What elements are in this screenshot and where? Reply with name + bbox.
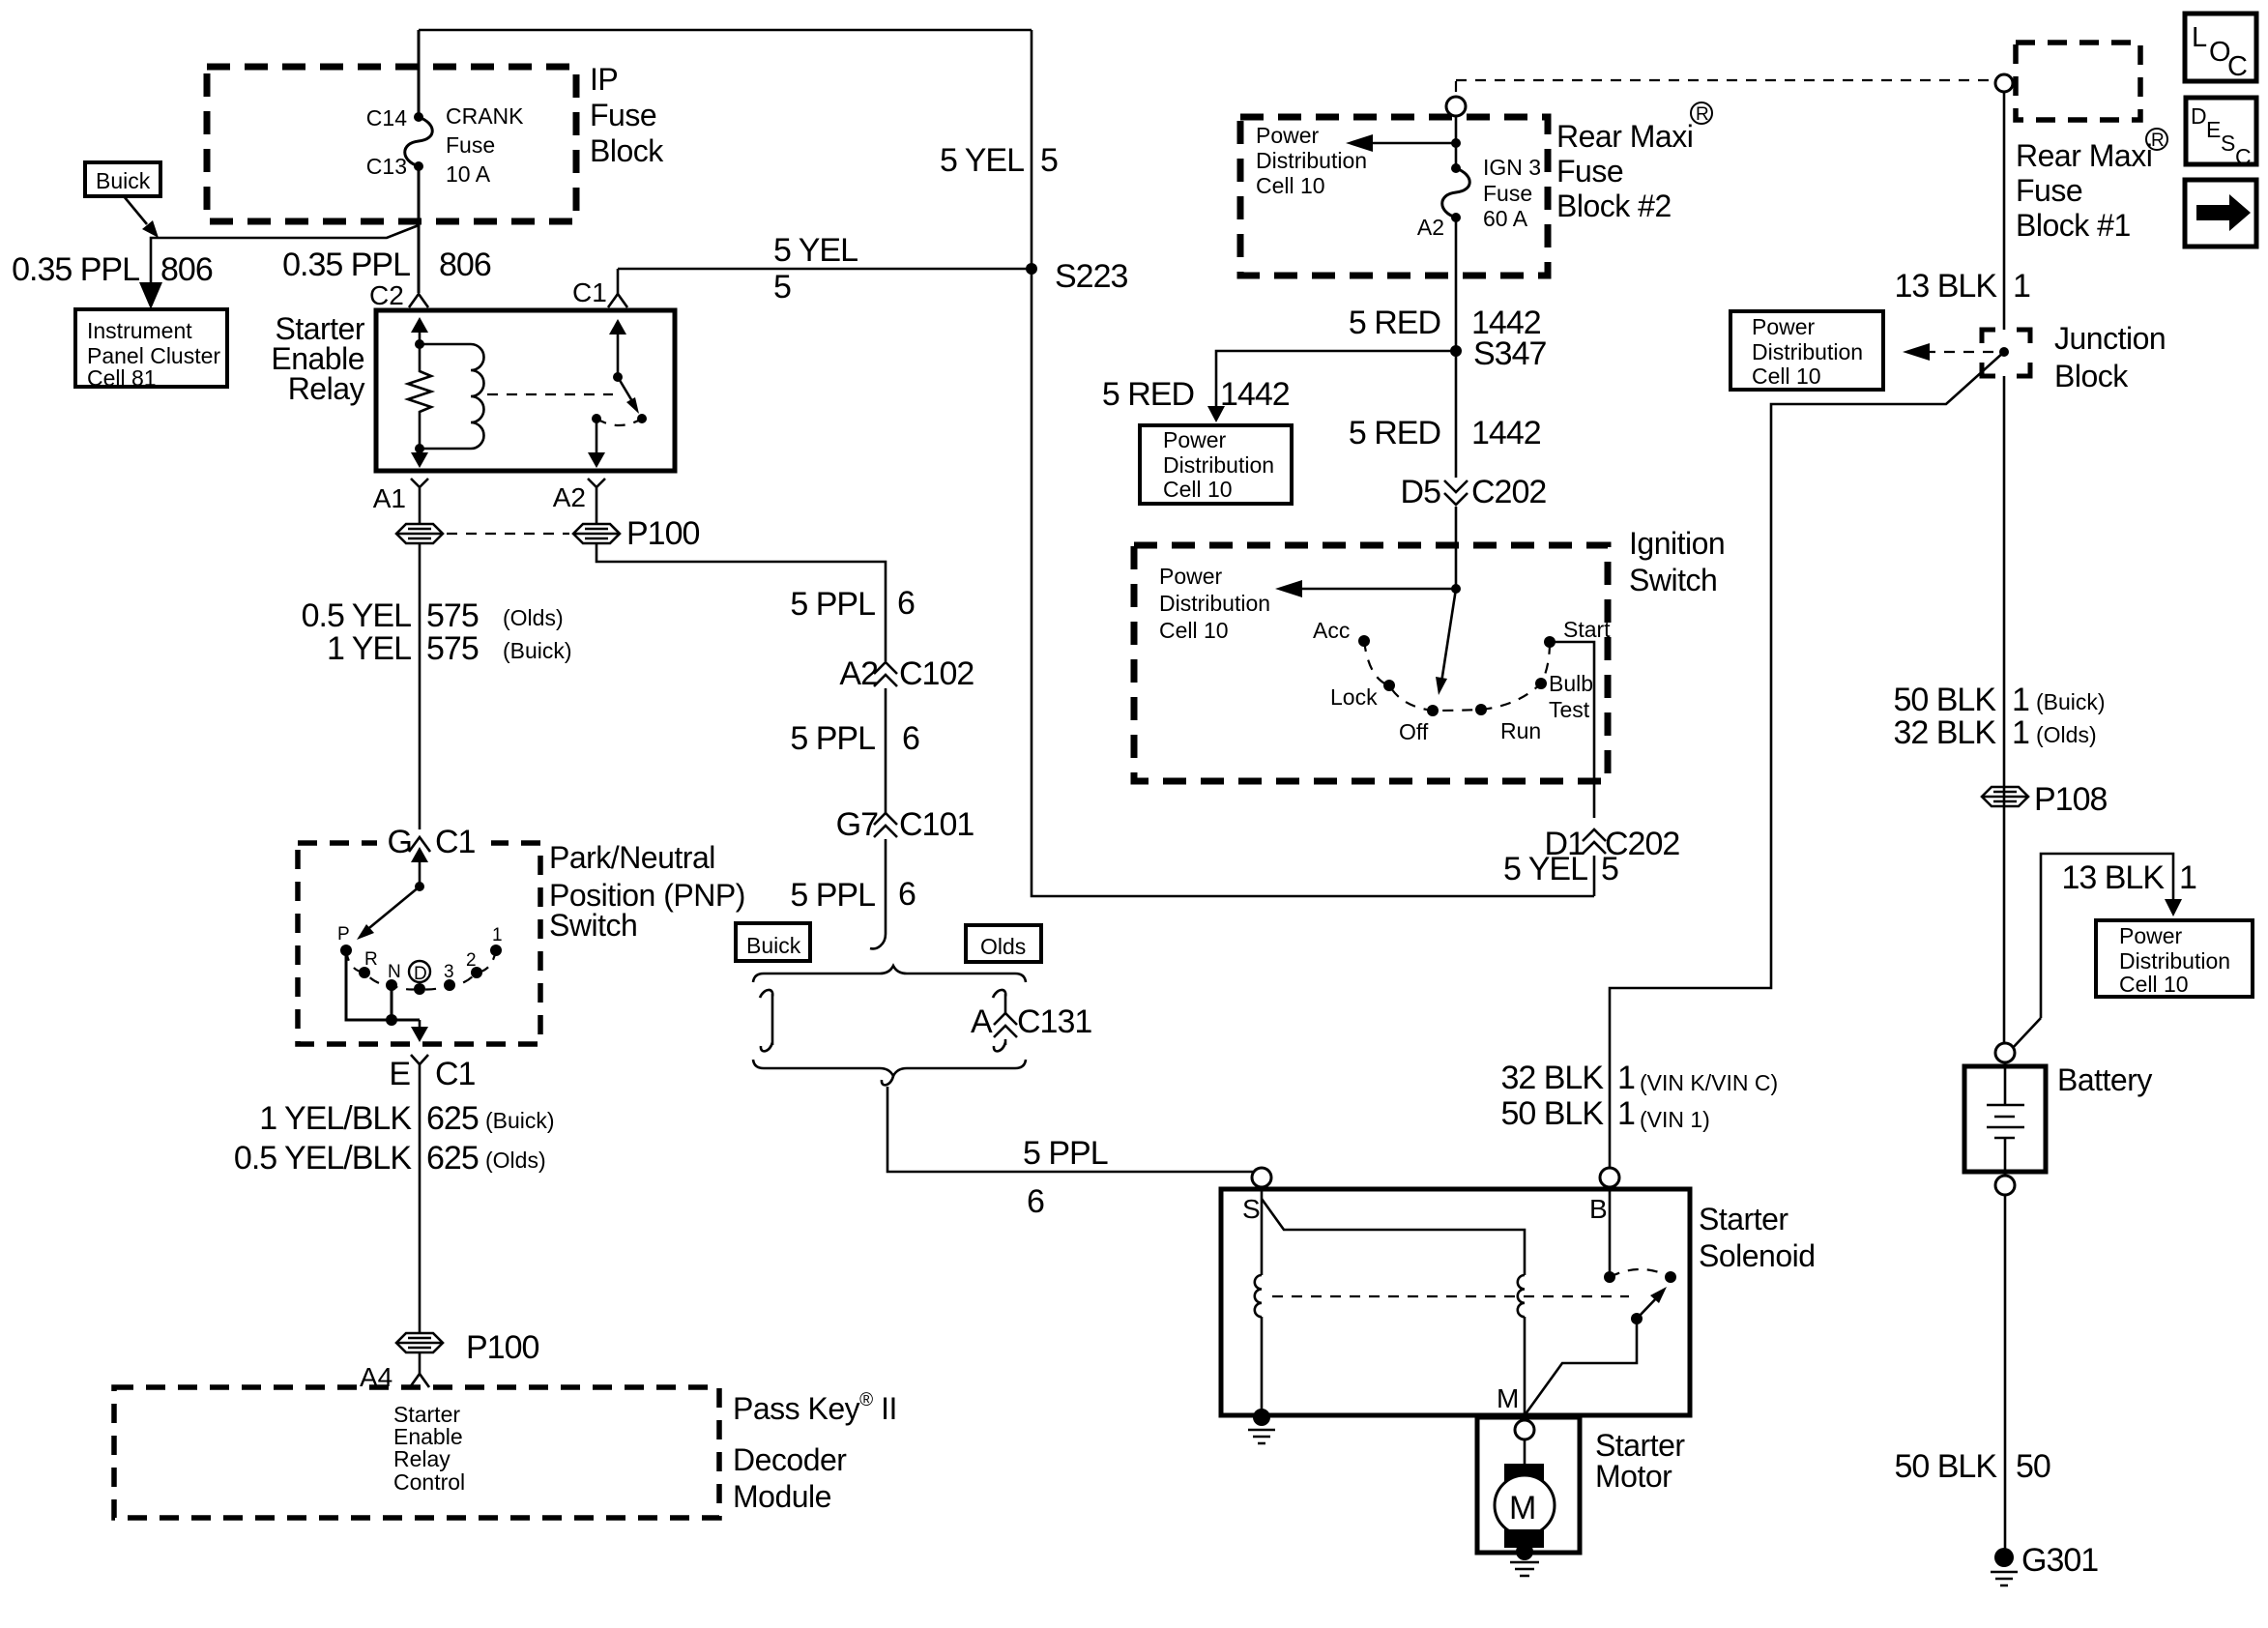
svg-text:C: C xyxy=(2227,51,2248,82)
svg-text:Distribution: Distribution xyxy=(1256,148,1367,173)
svg-text:5: 5 xyxy=(1040,142,1058,179)
svg-text:32 BLK: 32 BLK xyxy=(1893,714,1996,751)
svg-text:13 BLK: 13 BLK xyxy=(1894,268,1997,305)
svg-text:Pass Key® II: Pass Key® II xyxy=(733,1390,897,1426)
svg-text:R: R xyxy=(364,949,378,970)
ignition contact Lock xyxy=(1383,680,1395,691)
svg-text:Block #1: Block #1 xyxy=(2016,208,2131,243)
wire: circle down to IGN3 fuse xyxy=(1455,116,1458,168)
bulkhead connector P100 (A2) xyxy=(573,524,620,543)
battery top terminal xyxy=(1995,1043,2015,1062)
ignition rotor arm xyxy=(1441,589,1456,683)
svg-text:M: M xyxy=(1497,1383,1519,1413)
svg-text:A1: A1 xyxy=(373,483,406,513)
LOC box xyxy=(2185,14,2256,81)
svg-text:5: 5 xyxy=(1601,851,1618,887)
svg-text:Olds: Olds xyxy=(980,934,1026,959)
svg-text:Switch: Switch xyxy=(549,908,637,943)
solenoid hold-in winding xyxy=(1261,1187,1264,1275)
svg-text:Off: Off xyxy=(1399,719,1429,744)
Junction Block (dashed bracket) xyxy=(1982,330,2030,376)
svg-text:625: 625 xyxy=(426,1140,479,1177)
arrow to Power Distribution (ignition) xyxy=(1287,588,1456,591)
wire: E down to P100 xyxy=(419,1064,422,1332)
Ignition Switch box (dashed) xyxy=(1134,545,1608,781)
svg-text:5 RED: 5 RED xyxy=(1349,415,1440,451)
svg-text:Bulb: Bulb xyxy=(1549,671,1593,696)
wire: S347 down to D5 xyxy=(1455,351,1458,478)
svg-text:Ignition: Ignition xyxy=(1629,526,1725,561)
svg-text:Relay: Relay xyxy=(393,1446,451,1471)
svg-text:1: 1 xyxy=(1617,1060,1635,1096)
svg-text:R: R xyxy=(1696,104,1709,125)
svg-text:1: 1 xyxy=(492,925,503,945)
upper options brace xyxy=(753,966,1026,982)
ground G301 xyxy=(1994,1548,2014,1567)
svg-text:6: 6 xyxy=(902,720,919,757)
solenoid contact B xyxy=(1609,1187,1612,1277)
svg-text:P100: P100 xyxy=(626,515,699,552)
svg-text:IP: IP xyxy=(590,62,618,97)
wire: branch to Power Distribution (13 BLK) xyxy=(2041,854,2173,1018)
PNP contact N xyxy=(386,979,397,991)
junction node xyxy=(1999,347,2009,357)
ignition contact Off xyxy=(1427,705,1439,716)
Power Distribution Cell 10 box (middle) xyxy=(1140,425,1292,504)
svg-text:Relay: Relay xyxy=(288,371,365,406)
svg-text:6: 6 xyxy=(897,585,915,622)
svg-text:Solenoid: Solenoid xyxy=(1699,1238,1816,1273)
resistor (relay) xyxy=(408,344,431,449)
svg-text:Distribution: Distribution xyxy=(1752,339,1863,364)
svg-text:Cell 10: Cell 10 xyxy=(1159,618,1229,643)
svg-text:A2: A2 xyxy=(839,655,878,692)
next-page arrow box xyxy=(2185,180,2256,247)
svg-text:CRANK: CRANK xyxy=(446,103,524,129)
svg-text:D5: D5 xyxy=(1401,474,1441,510)
svg-text:E: E xyxy=(2206,117,2221,142)
ignition contact Start xyxy=(1544,636,1556,648)
svg-text:(Olds): (Olds) xyxy=(503,605,564,630)
svg-text:Power: Power xyxy=(1256,123,1320,148)
svg-text:D: D xyxy=(2191,103,2207,129)
wire: A1 down to PNP switch xyxy=(419,542,422,829)
Olds option stub lower xyxy=(994,1039,1005,1051)
wire: junction diagonal feed to solenoid B xyxy=(1610,352,2004,1168)
wire: fuse output down to relay pin C2 xyxy=(418,166,421,293)
Buick tag box (options) xyxy=(736,923,810,961)
PNP contact 2 xyxy=(471,967,482,978)
bulkhead connector P108 xyxy=(1982,787,2028,806)
motor ground xyxy=(1516,1543,1533,1560)
svg-text:2: 2 xyxy=(466,950,477,971)
Buick tag box xyxy=(85,162,160,196)
svg-text:Starter: Starter xyxy=(1595,1428,1685,1463)
svg-text:Control: Control xyxy=(393,1469,465,1495)
svg-text:C13: C13 xyxy=(366,154,407,179)
Buick option stub xyxy=(760,990,772,1051)
node S223 xyxy=(1026,263,1037,275)
svg-text:5 RED: 5 RED xyxy=(1349,305,1440,341)
svg-text:S223: S223 xyxy=(1055,258,1127,295)
Rear Maxi Fuse Block 2 (dashed) xyxy=(1240,117,1548,276)
svg-text:50 BLK: 50 BLK xyxy=(1893,682,1996,718)
Park/Neutral Position (PNP) Switch box (dashed) xyxy=(298,843,540,1044)
svg-text:(Buick): (Buick) xyxy=(2036,689,2106,714)
svg-text:Starter: Starter xyxy=(1699,1202,1788,1236)
svg-text:0.5 YEL: 0.5 YEL xyxy=(302,597,411,634)
svg-text:Module: Module xyxy=(733,1479,831,1514)
svg-text:50 BLK: 50 BLK xyxy=(1500,1095,1604,1132)
svg-text:1: 1 xyxy=(2012,682,2029,718)
svg-text:(Buick): (Buick) xyxy=(503,638,572,663)
svg-text:0.35 PPL: 0.35 PPL xyxy=(12,251,139,288)
node S347 xyxy=(1450,345,1462,357)
svg-text:6: 6 xyxy=(1027,1183,1044,1220)
svg-text:5 PPL: 5 PPL xyxy=(790,720,875,757)
svg-text:C102: C102 xyxy=(899,655,974,692)
ignition contact Run xyxy=(1475,704,1487,715)
svg-text:Power: Power xyxy=(2119,923,2183,948)
svg-text:S347: S347 xyxy=(1473,335,1546,372)
wire: C101 down to splice area xyxy=(885,839,887,934)
svg-text:1: 1 xyxy=(2012,714,2029,751)
svg-text:L: L xyxy=(2192,22,2207,53)
terminal circle (Rear Maxi 2 feed) xyxy=(1446,97,1466,116)
svg-text:C131: C131 xyxy=(1017,1003,1091,1040)
svg-text:5 PPL: 5 PPL xyxy=(790,877,875,914)
solenoid moving contact xyxy=(1665,1271,1676,1283)
svg-text:Start: Start xyxy=(1563,617,1611,642)
svg-text:Block #2: Block #2 xyxy=(1556,189,1672,223)
solenoid B terminal xyxy=(1600,1168,1619,1187)
svg-text:IGN 3: IGN 3 xyxy=(1483,155,1541,180)
svg-text:806: 806 xyxy=(439,247,491,283)
Olds option stub upper xyxy=(993,990,1005,1013)
PNP contact 3 xyxy=(444,979,455,991)
svg-text:Switch: Switch xyxy=(1629,563,1717,597)
svg-text:Fuse: Fuse xyxy=(590,98,656,132)
svg-text:6: 6 xyxy=(898,876,916,913)
wire: C1 to S223 xyxy=(618,269,1032,294)
svg-text:(Buick): (Buick) xyxy=(485,1108,555,1133)
svg-text:5 PPL: 5 PPL xyxy=(790,586,875,623)
svg-text:0.35 PPL: 0.35 PPL xyxy=(282,247,410,283)
arrow into Instrument Panel Cluster xyxy=(139,282,162,309)
svg-text:Power: Power xyxy=(1163,427,1227,452)
svg-text:Battery: Battery xyxy=(2057,1062,2152,1097)
svg-text:C2: C2 xyxy=(369,280,404,310)
svg-text:Buick: Buick xyxy=(746,933,801,958)
svg-text:M: M xyxy=(1509,1490,1535,1526)
PNP contact P xyxy=(340,945,352,956)
wire: S347 branch to Power Distribution xyxy=(1216,351,1456,412)
svg-text:0.5 YEL/BLK: 0.5 YEL/BLK xyxy=(234,1140,412,1177)
motor brush (bottom) xyxy=(1504,1529,1544,1548)
starter motor M terminal xyxy=(1515,1420,1534,1439)
svg-text:C1: C1 xyxy=(435,824,476,860)
svg-text:13 BLK: 13 BLK xyxy=(2061,859,2165,896)
wire: D1 down to trunk corner xyxy=(1593,856,1596,896)
svg-text:Rear Maxi: Rear Maxi xyxy=(2016,138,2152,173)
IP Fuse Block (dashed) xyxy=(207,67,576,221)
svg-text:575: 575 xyxy=(426,630,479,667)
Starter Motor box xyxy=(1477,1417,1580,1553)
wire end curl xyxy=(870,934,886,948)
svg-text:A: A xyxy=(971,1003,993,1040)
svg-text:S: S xyxy=(1242,1194,1261,1224)
terminal circle (junction feed) xyxy=(1995,74,2013,92)
ignition contact Bulb Test xyxy=(1535,678,1547,689)
PNP contact 1 xyxy=(490,945,502,956)
svg-text:60 A: 60 A xyxy=(1483,206,1528,231)
PNP output arrow xyxy=(419,1020,422,1032)
svg-text:Run: Run xyxy=(1500,718,1541,743)
svg-text:5 RED: 5 RED xyxy=(1102,376,1194,413)
svg-text:C14: C14 xyxy=(366,105,407,131)
svg-text:10 A: 10 A xyxy=(446,161,491,187)
svg-text:5 YEL: 5 YEL xyxy=(773,232,858,269)
svg-text:Cell 10: Cell 10 xyxy=(2119,972,2189,997)
svg-text:5 PPL: 5 PPL xyxy=(1023,1135,1108,1172)
Power Distribution Cell 10 box (junction) xyxy=(1730,311,1883,390)
svg-text:(VIN 1): (VIN 1) xyxy=(1640,1107,1710,1132)
svg-text:Cell 81: Cell 81 xyxy=(87,365,157,391)
svg-text:1 YEL/BLK: 1 YEL/BLK xyxy=(259,1100,412,1137)
dashed actuator link xyxy=(487,393,613,395)
svg-text:C1: C1 xyxy=(435,1056,476,1092)
Starter Solenoid box xyxy=(1221,1189,1690,1415)
ignition contact Acc xyxy=(1358,635,1370,647)
splice curl to solenoid feed xyxy=(882,1076,1253,1172)
svg-text:P: P xyxy=(337,924,350,945)
dashed link between P100 halves xyxy=(447,533,569,535)
motor brush (top) xyxy=(1524,1439,1527,1464)
wire: D5 into ignition switch xyxy=(1455,507,1458,589)
svg-text:Block: Block xyxy=(2054,359,2129,393)
Pass Key II Decoder Module box (dashed) xyxy=(114,1387,719,1518)
svg-text:Rear Maxi: Rear Maxi xyxy=(1556,119,1693,154)
solenoid S terminal xyxy=(1252,1168,1271,1187)
svg-text:Park/Neutral: Park/Neutral xyxy=(549,840,715,875)
arrow from Buick tag to wire xyxy=(124,196,147,224)
svg-text:G301: G301 xyxy=(2021,1542,2098,1579)
relay coil pin arrow (C2 side) xyxy=(419,325,422,344)
svg-text:E: E xyxy=(389,1056,410,1092)
bulkhead connector P100 (A4) xyxy=(396,1333,443,1352)
node C14 xyxy=(414,112,423,122)
ignition feed node xyxy=(1451,584,1461,594)
svg-text:Junction: Junction xyxy=(2054,321,2166,356)
wire: vertical into CRANK fuse xyxy=(418,30,421,117)
wire: fuse output down to S347 xyxy=(1455,218,1458,351)
dashed feed line to Rear Maxi Fuse Block 1 xyxy=(1456,80,1994,95)
svg-text:50: 50 xyxy=(2016,1448,2050,1485)
svg-text:Fuse: Fuse xyxy=(2016,173,2082,208)
wire: top feed from IP fuse block to S223 branch xyxy=(419,29,1032,32)
svg-text:G: G xyxy=(388,824,412,860)
svg-text:B: B xyxy=(1589,1194,1608,1224)
Rear Maxi Fuse Block 1 (dashed) xyxy=(2016,43,2140,120)
wire: C102 to C101 xyxy=(885,688,887,813)
relay switch (C1 to A2) xyxy=(617,329,620,377)
Starter Enable Relay box xyxy=(376,310,675,471)
svg-text:Distribution: Distribution xyxy=(1159,591,1270,616)
solenoid pull-in winding feed xyxy=(1262,1199,1525,1275)
Olds tag box (options) xyxy=(966,925,1041,962)
svg-text:Decoder: Decoder xyxy=(733,1442,847,1477)
svg-text:5 YEL: 5 YEL xyxy=(1503,851,1587,887)
motor armature xyxy=(1495,1475,1555,1535)
svg-text:3: 3 xyxy=(444,962,454,982)
svg-text:Acc: Acc xyxy=(1313,618,1350,643)
svg-text:Buick: Buick xyxy=(96,168,151,193)
svg-text:R: R xyxy=(2151,131,2165,151)
wire: S223 vertical trunk xyxy=(1032,30,1594,896)
solenoid ground xyxy=(1253,1409,1270,1426)
PNP wiring P and N to output xyxy=(346,950,420,1020)
svg-text:C: C xyxy=(2235,144,2252,169)
node C13 xyxy=(414,161,423,171)
svg-text:G7: G7 xyxy=(836,806,878,843)
DESC box xyxy=(2186,98,2256,164)
svg-text:C202: C202 xyxy=(1471,474,1546,510)
wire: branch tap to instrument cluster xyxy=(151,225,419,300)
svg-text:Distribution: Distribution xyxy=(1163,452,1274,478)
svg-text:32 BLK: 32 BLK xyxy=(1500,1060,1604,1096)
svg-text:5: 5 xyxy=(773,269,791,305)
svg-text:Distribution: Distribution xyxy=(2119,948,2230,974)
wire: A2 down and over to C102 chain xyxy=(596,542,886,661)
pin G connector (PNP) xyxy=(377,835,491,851)
node / arrow to Power Distribution xyxy=(1451,138,1461,148)
svg-text:Motor: Motor xyxy=(1595,1459,1672,1494)
svg-text:D: D xyxy=(414,964,427,984)
PNP contact D (circled) xyxy=(414,983,425,995)
svg-text:1: 1 xyxy=(2013,268,2030,305)
svg-text:Cell 10: Cell 10 xyxy=(1256,173,1325,198)
svg-text:N: N xyxy=(388,962,401,982)
solenoid switch arm xyxy=(1631,1313,1643,1324)
svg-text:C101: C101 xyxy=(899,806,974,843)
svg-text:Fuse: Fuse xyxy=(446,132,495,158)
battery bottom terminal xyxy=(1995,1176,2015,1195)
svg-text:(VIN K/VIN C): (VIN K/VIN C) xyxy=(1640,1070,1778,1095)
svg-text:50 BLK: 50 BLK xyxy=(1894,1448,1997,1485)
svg-text:Power: Power xyxy=(1159,564,1223,589)
wire: battery to G301 xyxy=(2004,1195,2007,1553)
PNP rotor arm xyxy=(419,855,422,887)
svg-text:A2: A2 xyxy=(553,482,586,512)
svg-text:Fuse: Fuse xyxy=(1483,181,1532,206)
svg-text:1: 1 xyxy=(1617,1095,1635,1132)
svg-text:Instrument: Instrument xyxy=(87,318,192,343)
PNP detent arc (dashed) xyxy=(346,950,496,990)
svg-text:Cell 10: Cell 10 xyxy=(1752,363,1821,389)
svg-text:Block: Block xyxy=(590,133,664,168)
bulkhead connector P100 (A1) xyxy=(396,524,443,543)
Battery xyxy=(1964,1066,2046,1172)
svg-text:1442: 1442 xyxy=(1220,376,1290,413)
svg-text:806: 806 xyxy=(160,251,213,288)
Instrument Panel Cluster Cell 81 box xyxy=(75,309,227,387)
svg-text:575: 575 xyxy=(426,597,479,634)
wire: circle down to junction block xyxy=(2003,92,2006,330)
svg-text:Test: Test xyxy=(1549,697,1590,722)
svg-text:1442: 1442 xyxy=(1471,415,1541,451)
svg-text:Fuse: Fuse xyxy=(1556,154,1623,189)
fuse IGN 3 60 A xyxy=(1451,163,1461,173)
svg-text:625: 625 xyxy=(426,1100,479,1137)
lower options brace xyxy=(753,1060,1026,1076)
wire: junction block down the right column xyxy=(2003,376,2006,1043)
svg-text:Lock: Lock xyxy=(1330,684,1378,710)
dashed plunger link xyxy=(1272,1295,1629,1297)
Power Distribution Cell 10 box (bottom right) xyxy=(2096,920,2253,997)
svg-text:P100: P100 xyxy=(466,1329,538,1366)
svg-text:5 YEL: 5 YEL xyxy=(940,142,1024,179)
svg-text:Cell 10: Cell 10 xyxy=(1163,477,1233,502)
relay lower pin arrow (A1) xyxy=(419,449,422,458)
svg-text:Power: Power xyxy=(1752,314,1816,339)
ignition detent arc (dashed) xyxy=(1364,641,1550,711)
svg-text:P108: P108 xyxy=(2034,781,2107,818)
svg-text:1: 1 xyxy=(2179,859,2196,896)
svg-text:A2: A2 xyxy=(1417,215,1444,240)
svg-text:1 YEL: 1 YEL xyxy=(327,630,411,667)
svg-text:(Olds): (Olds) xyxy=(2036,722,2097,747)
wire: Start contact out of switch xyxy=(1550,642,1594,818)
relay coil xyxy=(420,344,471,449)
fuse CRANK 10 A xyxy=(405,117,433,166)
PNP contact R xyxy=(359,967,370,978)
svg-text:S: S xyxy=(2221,131,2235,156)
svg-text:C1: C1 xyxy=(572,277,607,307)
dashed arrow to Power Distribution (junction) xyxy=(1916,351,1993,353)
svg-text:(Olds): (Olds) xyxy=(485,1148,546,1173)
